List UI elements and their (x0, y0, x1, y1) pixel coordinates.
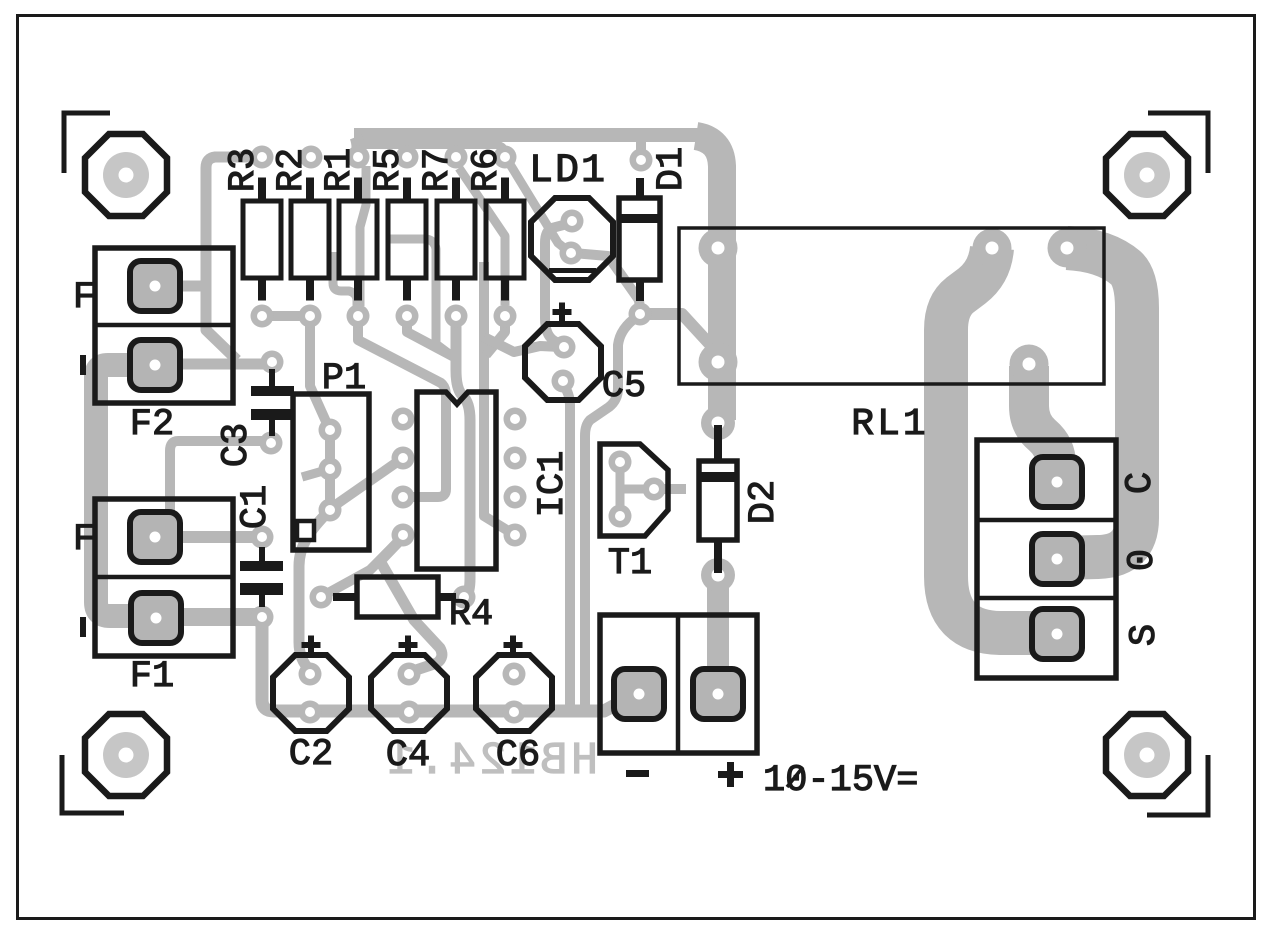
capacitor C6 (476, 655, 552, 731)
terminal block F1 (95, 499, 233, 656)
wire: T1 base-emitter pads link (616, 462, 625, 516)
wire: LD1 cathode pad diagonally through D1 to its bottom pad (573, 253, 640, 310)
capacitor C5 (525, 324, 601, 400)
corner mark top-left (64, 113, 110, 173)
svg-text:C3: C3 (216, 423, 258, 467)
node: C2 pads (299, 663, 322, 686)
wire: branch to C5 top pad (484, 337, 561, 352)
svg-text:F: F (73, 277, 95, 319)
wire: R3-R2 bottom pads link (262, 311, 310, 321)
terminal block F2 (95, 248, 233, 403)
wire: band left end curve into R1 top pad (356, 137, 358, 155)
node: R4 pads (310, 586, 333, 609)
wire: D2 cathode rail to + terminal (707, 575, 729, 692)
output terminal block C O S (977, 440, 1116, 678)
node: C4 pads (398, 663, 421, 686)
mounting hole top-left (85, 134, 167, 216)
wire: stub band to D1 top pad (636, 138, 646, 158)
node: C6 pads (503, 663, 526, 686)
wire: C3 bottom pad west then down to F1 upper pad (158, 441, 266, 532)
wire: trace A relay pad to S terminal (946, 248, 1052, 633)
svg-text:C5: C5 (602, 366, 646, 408)
IC IC1 (417, 392, 496, 569)
corner mark top-right (1148, 113, 1208, 173)
wire: supply rail down to relay and D2 anode (696, 136, 722, 420)
node: C5 pads (553, 336, 576, 359)
diode D2 (697, 425, 739, 573)
resistor R3 (243, 178, 281, 301)
label I (lower F1) (80, 617, 86, 637)
label - (minus terminal) (626, 770, 649, 777)
wire: R1 bottom pad diagonal into IC1 and branch to pin 4 (358, 318, 446, 497)
svg-text:LD1: LD1 (529, 149, 607, 194)
wire: P1 pads link (325, 432, 335, 508)
wire: C5 bottom pad down to ground run (563, 384, 570, 705)
svg-text:D2: D2 (743, 480, 785, 524)
wire: P1 wiper stub (302, 469, 330, 477)
wire: R3 top pad west then down to C3 (206, 157, 260, 360)
wire: P1 bottom to C2 plus pad (299, 512, 328, 670)
svg-text:10-15V=: 10-15V= (763, 760, 918, 802)
svg-text:F1: F1 (130, 656, 174, 698)
capacitor C3 (251, 369, 294, 436)
wire: jog into R1 bottom pad (333, 252, 357, 308)
label + (plus terminal) (718, 762, 743, 787)
wire: F2 lower pad to C3 top pad (160, 359, 266, 370)
svg-text:0: 0 (1122, 549, 1164, 571)
capacitor C1 (240, 547, 283, 607)
wire: IC1 pin across R4 to C4 plus pad (380, 537, 442, 671)
wire: T1 collector to D2 bottom pad (654, 484, 686, 494)
node: T1 pads (609, 451, 632, 474)
svg-text:D1: D1 (651, 147, 693, 191)
svg-text:R1: R1 (319, 148, 361, 192)
node: LD1 pads (561, 210, 584, 233)
svg-text:R2: R2 (271, 148, 313, 192)
wire: R5 bottom pad diagonal into bundle (407, 318, 454, 357)
svg-text:F: F (73, 519, 95, 561)
wire: ground run C1 bottom along caps row to - terminal (262, 620, 630, 711)
svg-text:IC1: IC1 (532, 451, 574, 518)
node: resistor bottom pads row (251, 305, 274, 328)
wire: R6 bundle vertical through IC1 to pin 5 (484, 262, 510, 532)
svg-text:R5: R5 (368, 148, 410, 192)
svg-text:T1: T1 (608, 543, 652, 585)
resistor R4 (333, 577, 456, 617)
svg-text:C6: C6 (496, 735, 540, 777)
svg-text:R3: R3 (223, 148, 265, 192)
wire: R7 top pad to R6 bottom pad diagonal (459, 168, 505, 305)
corner mark bottom-left (62, 755, 124, 813)
wire: D1 bottom pad down right of C5 to ground run (585, 316, 638, 705)
node: RL1 pads (699, 229, 738, 268)
capacitor C4 (371, 655, 447, 731)
mounting hole top-right (1106, 134, 1188, 216)
slash of zero in 10-15V= (787, 767, 803, 787)
svg-text:F2: F2 (130, 404, 174, 446)
wire: LD1 anode pad to C5 top pad (545, 223, 571, 345)
resistor R2 (291, 178, 329, 301)
resistor R1 (339, 178, 377, 301)
wire: R5-R7 crossover down to IC1 (388, 239, 452, 356)
corner mark bottom-right (1147, 755, 1208, 815)
wire: IC1 pin to P1 wiper (334, 460, 400, 506)
wire: thin bus linking R1 R5 R7 R6 top pads (364, 145, 505, 157)
node: D2 pads (701, 406, 735, 440)
wire: R7 bottom pad through IC1 to R4 (456, 318, 470, 597)
svg-text:C: C (1120, 472, 1162, 494)
wire: top supply band (354, 128, 700, 142)
wire: F2 upper pad stub to R3 trace (160, 281, 206, 292)
wire: F1 lower pad to C1 bottom pad (104, 608, 256, 626)
trimmer P1 (293, 394, 369, 550)
svg-text:R4: R4 (449, 594, 493, 636)
node: D1 pads (630, 149, 653, 172)
wire: IC1 pin to R4 left pad (330, 537, 403, 592)
wire: T1 collector link (621, 485, 652, 494)
mounting hole bottom-left (85, 714, 167, 796)
svg-text:C4: C4 (386, 735, 430, 777)
LED LD1 (531, 198, 613, 280)
transistor T1 (600, 444, 668, 536)
wire: F1 upper pad to C1 top pad (160, 531, 258, 543)
relay RL1 (679, 228, 1104, 384)
wire: R6 bottom pad jog into bundle (486, 318, 505, 355)
node: C1 pads (251, 526, 274, 549)
wire: R6 top pad to LD1 cathode pad diagonal (508, 161, 568, 251)
svg-text:R6: R6 (466, 148, 508, 192)
power terminal block (600, 615, 757, 753)
svg-text:C1: C1 (235, 485, 277, 529)
node: resistor top pads row (251, 146, 274, 169)
wire: D1 bottom pad to relay pad (641, 314, 716, 351)
label I (lower F2) (80, 355, 86, 375)
wire: R2 bottom pad to P1 top pad (310, 318, 328, 426)
svg-text:S: S (1124, 624, 1166, 646)
wire: trace C relay pad to C terminal (1029, 366, 1056, 478)
capacitor C2 (273, 655, 349, 731)
svg-text:C2: C2 (289, 734, 333, 776)
diode D1 (617, 178, 662, 301)
wire: left rail F2 to F1 (96, 365, 158, 616)
resistor R7 (437, 178, 475, 301)
node: IC1 pads (392, 408, 415, 431)
resistor R5 (388, 178, 426, 301)
node: P1 pads (319, 419, 342, 442)
svg-text:R7: R7 (417, 148, 459, 192)
mounting hole bottom-right (1106, 714, 1188, 796)
wire: trace B relay pad to O terminal (1058, 248, 1137, 558)
resistor R6 (486, 178, 524, 301)
svg-text:P1: P1 (322, 358, 366, 400)
wire: R1 interior vertical (360, 166, 366, 306)
svg-text:RL1: RL1 (851, 403, 928, 446)
node: C3 pads (261, 351, 284, 374)
